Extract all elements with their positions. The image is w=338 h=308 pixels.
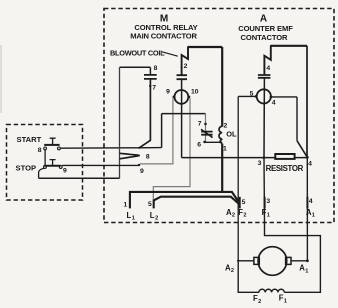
pushbutton STOP bar	[44, 165, 60, 167]
brush right	[286, 257, 291, 264]
wire F2 external	[238, 261, 259, 293]
contact 8 wedge	[120, 153, 139, 159]
svg-text:1: 1	[267, 213, 270, 219]
svg-text:7: 7	[152, 84, 156, 91]
wire vertical above contact 8-7	[149, 67, 151, 75]
pushbutton STOP stem	[50, 160, 56, 165]
svg-text:8: 8	[146, 154, 150, 161]
wire M top	[188, 46, 222, 48]
node 4 dot coil	[270, 96, 273, 99]
svg-text:4: 4	[272, 100, 276, 107]
node 5 dot	[255, 95, 258, 98]
blowout coil M (hook)	[182, 47, 188, 75]
svg-text:1: 1	[305, 268, 308, 274]
contact dot 9	[138, 164, 140, 166]
wire node3 to F1	[263, 158, 266, 223]
svg-text:1: 1	[312, 213, 315, 219]
pushbutton START bar	[44, 144, 59, 146]
node 9 dot	[173, 96, 176, 99]
node A2 dot	[237, 260, 239, 262]
svg-text:8: 8	[38, 147, 42, 154]
svg-text:L: L	[150, 211, 155, 220]
blade tip dot	[138, 147, 140, 149]
wire stop to 9	[62, 164, 139, 166]
node 3 dot	[263, 156, 266, 159]
blowout coil A (hook)	[264, 46, 270, 75]
wire vertical to contact 8 blade	[161, 114, 163, 148]
wedge tip dot	[138, 155, 140, 157]
svg-text:2: 2	[231, 268, 234, 274]
svg-text:3: 3	[258, 160, 262, 167]
svg-text:5: 5	[148, 201, 152, 208]
svg-text:START: START	[17, 135, 42, 144]
START contact right	[58, 147, 61, 150]
wire OL vertical upper	[221, 47, 223, 127]
svg-text:1: 1	[124, 202, 128, 209]
svg-text:2: 2	[224, 123, 228, 130]
svg-text:2: 2	[155, 216, 158, 222]
svg-text:2: 2	[232, 213, 235, 219]
wire vertical contact 6-7	[205, 114, 207, 142]
wire L1 with tick	[130, 192, 239, 209]
svg-text:5: 5	[242, 199, 246, 206]
wire bus node3	[182, 157, 308, 159]
field inductor F2-F1	[259, 289, 284, 292]
start-stop station dashed box	[7, 125, 83, 201]
pushbutton START stem	[50, 138, 56, 144]
svg-text:3: 3	[266, 198, 270, 205]
scan artifact left edge line	[0, 45, 2, 113]
svg-text:8: 8	[154, 65, 158, 72]
terminal tick F2A2	[239, 197, 241, 209]
svg-text:9: 9	[63, 167, 67, 174]
contact M2 (bars)	[177, 75, 188, 79]
svg-text:1: 1	[284, 298, 287, 304]
wire coil4 right	[271, 96, 297, 98]
contact A4 (bars)	[258, 75, 271, 78]
svg-text:9: 9	[166, 89, 170, 96]
tick node 2	[181, 66, 183, 68]
slash contact 6-7	[201, 129, 213, 137]
wire from START to blade	[60, 147, 161, 150]
wire right brush	[291, 260, 307, 262]
terminal tick F1	[264, 197, 266, 209]
wire down to blade A	[296, 97, 298, 141]
wire stop return	[39, 177, 120, 179]
svg-text:7: 7	[198, 121, 202, 128]
svg-text:OL: OL	[226, 130, 237, 139]
blade M armature	[139, 79, 150, 148]
resistor	[275, 154, 294, 159]
STOP contact right	[59, 166, 62, 169]
svg-text:1: 1	[223, 146, 227, 153]
svg-text:9: 9	[140, 168, 144, 175]
motor armature	[258, 247, 287, 276]
wire A2 to brush	[238, 260, 254, 262]
svg-text:4: 4	[309, 198, 313, 205]
svg-text:2: 2	[258, 299, 261, 305]
tick node 4	[263, 66, 265, 68]
svg-text:STOP: STOP	[16, 163, 37, 172]
svg-text:BLOWOUT COIL: BLOWOUT COIL	[110, 48, 165, 57]
wire A2 vertical long	[237, 96, 239, 260]
overload OL heater coil	[219, 126, 222, 143]
wire OL vertical lower	[221, 144, 223, 193]
wire start-left down	[44, 150, 46, 166]
wire gray from coil 10 to L2	[153, 98, 190, 200]
blade A	[297, 141, 307, 157]
wire gray from coil 9	[140, 98, 173, 164]
node 7 dot upper	[149, 85, 151, 87]
wire stop left return	[39, 168, 44, 178]
wire horizontal top-left	[120, 66, 151, 68]
svg-text:4: 4	[266, 65, 270, 72]
wire vertical through A coil	[263, 78, 265, 158]
node 6 dot	[203, 141, 206, 144]
wire L2 with tick	[154, 197, 240, 209]
svg-text:2: 2	[243, 213, 246, 219]
main contactor dashed enclosure box	[104, 9, 334, 223]
svg-text:L: L	[127, 211, 132, 220]
node 7 dot	[204, 123, 207, 126]
wire A top	[271, 45, 307, 47]
contact M 6-7 (bars)	[201, 132, 212, 135]
svg-text:4: 4	[308, 160, 312, 167]
wire A right vertical	[306, 46, 308, 157]
svg-text:CONTACTOR: CONTACTOR	[241, 33, 289, 42]
svg-text:RESISTOR: RESISTOR	[266, 164, 304, 173]
wire 6 to OL	[205, 141, 223, 143]
svg-text:10: 10	[191, 89, 199, 96]
START contact left	[44, 147, 47, 150]
wire F1 external	[265, 223, 321, 293]
svg-text:MAIN CONTACTOR: MAIN CONTACTOR	[130, 31, 197, 40]
leader line to blowout coil	[162, 52, 178, 56]
wire coil5 left	[238, 95, 256, 97]
svg-text:6: 6	[197, 141, 201, 148]
brush left	[254, 257, 259, 264]
relay coil M	[175, 90, 189, 104]
relay coil A	[257, 89, 271, 103]
svg-text:COUNTER EMF: COUNTER EMF	[238, 24, 293, 33]
terminal tick A1	[306, 197, 308, 209]
svg-text:1: 1	[132, 216, 135, 222]
node A1 dot	[306, 259, 309, 262]
svg-text:2: 2	[184, 63, 188, 70]
wire horizontal 10-7	[162, 113, 206, 115]
wire node4 to A1	[306, 157, 308, 261]
wire vertical left branch	[119, 67, 121, 178]
node 10 dot	[188, 96, 191, 99]
contact M 8-7 (bars)	[144, 75, 157, 79]
STOP contact left	[44, 166, 47, 169]
node 4 dot	[306, 156, 309, 159]
wire center vertical through M coil	[181, 79, 183, 157]
